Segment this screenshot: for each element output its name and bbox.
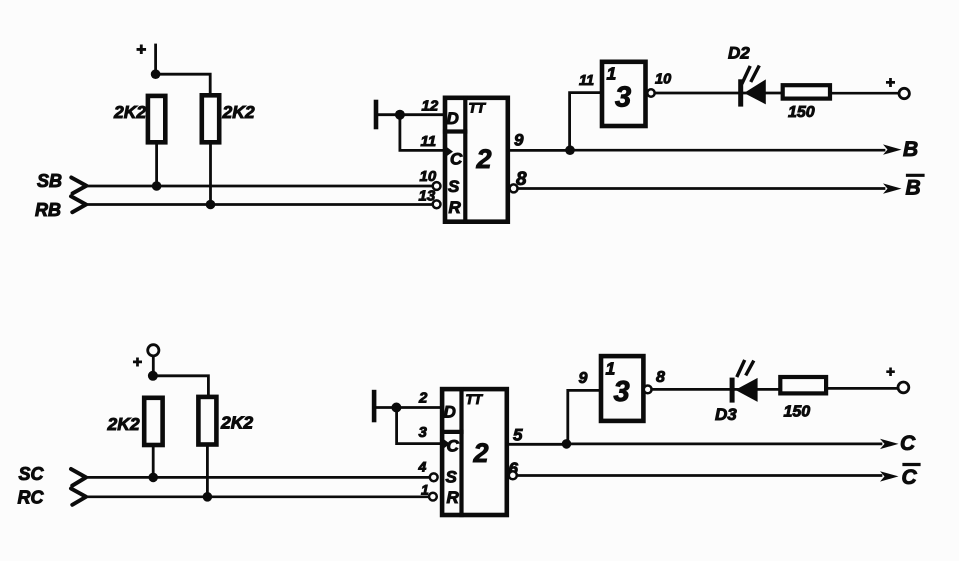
wire gate output to diode [652, 388, 781, 391]
dynamic input wedge at C [445, 146, 453, 158]
bar symbol (logic-1 stub) at D input (bottom) [372, 392, 377, 420]
svg-text:5: 5 [513, 426, 523, 445]
svg-text:2: 2 [418, 390, 428, 407]
junction dot on Q line [562, 439, 572, 449]
resistor R 2K2 (left, top section) [148, 96, 165, 142]
svg-text:1: 1 [421, 482, 429, 498]
+ terminal circle (bottom left) [148, 345, 159, 356]
wire Q-bar to output B-bar [518, 187, 884, 190]
wire resistor to + terminal [830, 92, 898, 95]
svg-text:2K2: 2K2 [222, 102, 255, 122]
overline of B-bar [908, 174, 924, 177]
node junction dot [148, 371, 158, 381]
resistor R 2K2 (right, top section) [202, 95, 219, 142]
resistor 150 (top) [783, 85, 830, 98]
svg-text:+: + [136, 40, 146, 59]
bubble on Q-bar output [510, 184, 518, 192]
bubble on R input [433, 200, 441, 208]
svg-text:C: C [902, 466, 918, 489]
wire node to R2 top [156, 74, 211, 96]
input arrow RB [71, 196, 86, 212]
svg-text:2: 2 [476, 144, 492, 174]
svg-text:1: 1 [607, 64, 617, 84]
svg-text:S: S [446, 468, 458, 487]
bar symbol (logic-1 stub) at D input [374, 102, 379, 127]
svg-text:10: 10 [655, 72, 671, 88]
diode D2 cathode bar [738, 79, 743, 106]
bubble on Q-bar output [509, 471, 517, 479]
svg-text:B: B [903, 138, 918, 161]
svg-text:2K2: 2K2 [113, 102, 146, 122]
svg-text:3: 3 [419, 424, 428, 441]
svg-text:RC: RC [18, 488, 45, 508]
svg-text:2K2: 2K2 [220, 413, 253, 433]
flip-flop divider under D [442, 430, 461, 434]
svg-text:9: 9 [514, 131, 524, 150]
wire Q output pin 9 [508, 149, 570, 152]
junction dot at D branch [391, 403, 401, 413]
wire terminal to node [152, 356, 155, 376]
wire SB to S input [86, 185, 432, 188]
junction dot on Q line [565, 145, 575, 155]
wire from + down to node [154, 45, 157, 74]
+ terminal circle (bottom right) [898, 382, 909, 393]
inverter gate U3 outline [602, 62, 646, 126]
flip-flop divider under D [445, 129, 465, 133]
wire R left bottom to SC line [152, 445, 155, 477]
bubble on S input [430, 473, 438, 481]
svg-text:150: 150 [784, 404, 811, 421]
wire Q-bar to output C-bar [517, 474, 881, 477]
wire gate input 9 from Q junction [568, 390, 601, 444]
wire R left bottom to SB line [155, 142, 158, 186]
LED arrows D3 [738, 362, 754, 376]
diode D3 cathode bar [730, 378, 735, 403]
svg-text:+: + [133, 354, 142, 371]
wire junction down to pin C [397, 408, 443, 444]
svg-text:D2: D2 [728, 44, 750, 63]
input arrow SB [71, 178, 86, 194]
svg-text:TT: TT [469, 101, 487, 116]
wire RB to R input [86, 203, 433, 206]
svg-text:11: 11 [421, 133, 437, 150]
wire RC to R input [86, 495, 429, 498]
bubble on gate output [644, 386, 652, 394]
svg-text:+: + [886, 364, 895, 381]
svg-text:S: S [448, 177, 460, 196]
wire junction down to pin C [400, 115, 445, 151]
svg-text:C: C [450, 150, 463, 169]
svg-text:3: 3 [614, 376, 630, 408]
diode D2 triangle [744, 79, 766, 104]
svg-text:SC: SC [19, 464, 45, 484]
svg-text:R: R [447, 488, 460, 507]
wire junction to pin D [400, 113, 445, 116]
wire R right bottom to RC line [206, 445, 209, 497]
svg-text:12: 12 [422, 98, 439, 115]
flip-flop U2 (TT) outline (bottom) [442, 389, 507, 515]
junction dot on SB line [152, 181, 162, 191]
svg-text:R: R [449, 198, 462, 217]
LED arrows D2 [743, 67, 759, 83]
bubble on gate output [647, 89, 654, 96]
resistor 150 (bottom) [780, 377, 826, 393]
wire gate input 11 from Q junction [570, 93, 602, 151]
svg-text:D: D [444, 403, 456, 422]
svg-text:8: 8 [656, 369, 665, 386]
wire gate output to diode [655, 92, 783, 95]
arrowhead output C [880, 439, 899, 449]
svg-text:2: 2 [473, 438, 489, 468]
svg-text:3: 3 [615, 82, 631, 114]
svg-text:RB: RB [35, 200, 61, 220]
overline of C-bar [904, 463, 919, 466]
wire Q to output C [567, 443, 882, 446]
wire bar to junction [378, 113, 400, 116]
svg-text:D3: D3 [715, 405, 737, 424]
svg-text:SB: SB [37, 171, 62, 191]
wire Q to output B [570, 149, 884, 152]
svg-text:B: B [906, 177, 921, 200]
svg-text:2K2: 2K2 [107, 414, 140, 434]
junction dot at D branch [395, 110, 405, 120]
flip-flop divider vertical [459, 389, 463, 515]
flip-flop divider vertical [463, 98, 467, 222]
svg-text:D: D [447, 109, 459, 128]
bubble on R input [429, 493, 437, 501]
wire node to R4 top [153, 376, 209, 398]
input arrow RC [71, 489, 86, 505]
svg-text:9: 9 [579, 370, 588, 387]
svg-text:11: 11 [579, 73, 594, 89]
wire SC to S input [86, 476, 430, 479]
junction dot on RC line [203, 492, 213, 502]
diode D3 triangle [735, 378, 757, 402]
junction dot on SC line [148, 473, 158, 483]
inverter gate U3 outline (bottom) [601, 356, 643, 421]
wire bar to junction [376, 406, 396, 409]
svg-text:TT: TT [466, 392, 484, 407]
+ terminal circle (top right) [899, 88, 909, 98]
arrowhead output C-bar [880, 471, 899, 481]
svg-text:150: 150 [788, 104, 815, 121]
wire resistor to + terminal [826, 387, 898, 390]
resistor R 2K2 (left, bottom section) [144, 398, 162, 445]
svg-text:C: C [447, 437, 460, 456]
junction dot on RB line [206, 200, 216, 210]
arrowhead output B [883, 144, 902, 154]
svg-text:4: 4 [418, 459, 427, 475]
wire Q output pin 5 [507, 443, 567, 446]
input arrow SC [71, 469, 86, 486]
resistor R 2K2 (right, bottom section) [198, 397, 216, 445]
svg-text:C: C [900, 432, 916, 455]
flip-flop U2 (TT) outline [445, 98, 508, 222]
node junction dot at resistor tops [151, 69, 161, 79]
arrowhead output B-bar [883, 183, 902, 193]
dynamic input wedge at C [442, 438, 450, 450]
wire junction to pin D [396, 406, 442, 409]
svg-text:+: + [886, 75, 895, 92]
wire R right bottom to RB line [209, 142, 212, 204]
bubble on S input [433, 182, 441, 190]
